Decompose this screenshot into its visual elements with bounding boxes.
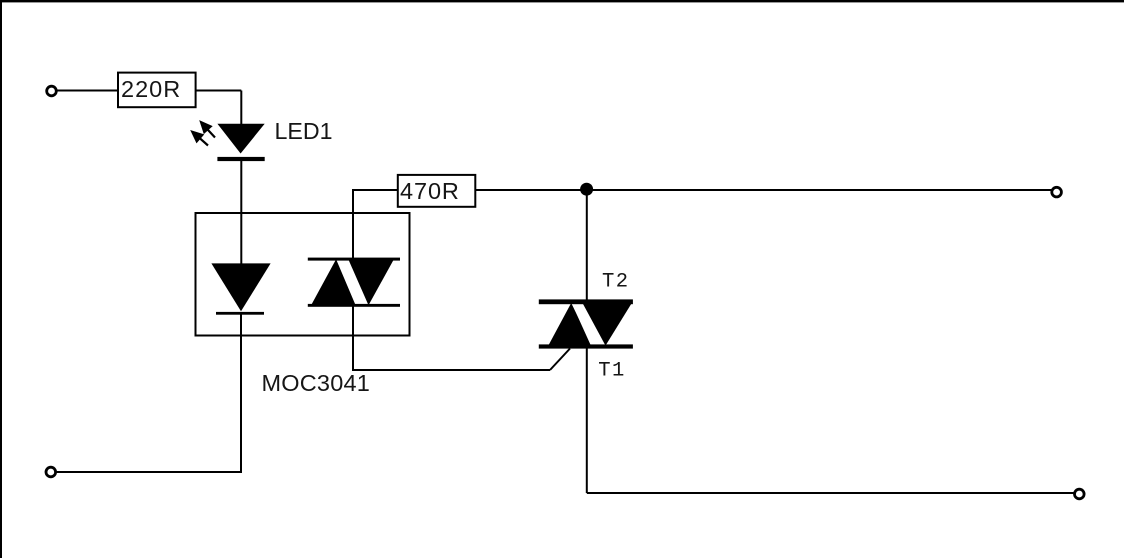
wire	[352, 189, 398, 191]
resistor 470R	[398, 175, 476, 207]
wire	[352, 190, 354, 259]
svg-text:T2: T2	[602, 270, 629, 293]
wire	[550, 349, 570, 371]
junction	[580, 183, 593, 196]
MOC3041 internal LED	[211, 263, 270, 314]
optocoupler MOC3041 box	[196, 213, 410, 336]
wire	[587, 492, 1074, 494]
terminal bottom-right	[1075, 489, 1085, 499]
wire	[352, 306, 354, 370]
wire	[352, 369, 550, 371]
svg-text:220R: 220R	[121, 76, 181, 102]
LED LED1	[190, 120, 265, 161]
wire	[475, 189, 1052, 191]
svg-text:MOC3041: MOC3041	[262, 370, 371, 396]
wire	[240, 91, 242, 126]
MOC3041 internal photo-triac	[308, 258, 400, 307]
svg-text:T1: T1	[598, 360, 625, 383]
svg-text:LED1: LED1	[275, 118, 333, 144]
terminal top-right	[1052, 187, 1062, 197]
resistor 220R	[118, 73, 196, 108]
triac	[539, 299, 633, 348]
wire	[240, 314, 242, 472]
svg-text:470R: 470R	[400, 178, 460, 204]
wire	[586, 190, 588, 300]
wire	[58, 90, 120, 92]
wire	[57, 471, 243, 473]
terminal top-left input	[47, 86, 57, 96]
wire	[586, 349, 588, 494]
terminal bottom-left	[46, 467, 56, 477]
wire	[240, 159, 242, 264]
wire	[196, 90, 242, 92]
